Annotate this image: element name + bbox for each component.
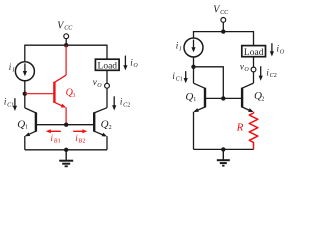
svg-text:O: O <box>97 83 102 89</box>
svg-text:1: 1 <box>58 139 61 145</box>
junction node B (right) <box>191 65 195 69</box>
label iC2 (left) <box>120 97 130 109</box>
svg-text:Load: Load <box>98 62 118 72</box>
vO terminal (right) <box>251 67 256 72</box>
junction base rail (right) <box>221 96 225 100</box>
junction base node (left) <box>64 123 68 127</box>
arrow iC2 (left) <box>113 96 115 106</box>
svg-text:1: 1 <box>180 77 183 83</box>
wire rail to load (right) <box>253 31 255 46</box>
svg-text:2: 2 <box>109 125 112 131</box>
transistor Q3 (red) <box>54 45 67 125</box>
label vO (right) <box>240 62 250 74</box>
arrow iO (right) <box>271 43 273 52</box>
wire vO to Q2 collector (left) <box>106 88 108 108</box>
transistor Q1 (right) <box>193 83 205 149</box>
wire VCC terminal to rail (left) <box>65 39 67 46</box>
svg-text:CC: CC <box>220 10 229 16</box>
label iC1 + arrow (right) <box>172 71 182 83</box>
wire base rail Q1 to Q2 (right) <box>205 97 242 99</box>
wire node B to Q1 collector (right) <box>193 67 195 83</box>
label Q1 (right) <box>185 91 196 103</box>
transistor Q1 (left) <box>24 108 36 150</box>
resistor R (red) <box>249 112 257 150</box>
svg-text:O: O <box>244 67 249 73</box>
svg-text:R: R <box>236 122 244 134</box>
label Q3 (red) <box>66 88 76 99</box>
wire diode connection node B to base rail (right) <box>194 67 224 99</box>
arrow iB2 (red) <box>73 129 87 133</box>
wire load to vO terminal (left) <box>106 70 108 83</box>
label iC1 + arrow (left) <box>4 97 14 109</box>
vO terminal (left) <box>105 83 110 88</box>
label Q2 (left) <box>101 119 112 131</box>
svg-text:Load: Load <box>244 48 264 58</box>
label iO (left) <box>130 57 138 69</box>
wire node A to Q3 base (red) <box>25 93 55 95</box>
svg-text:v: v <box>240 62 244 72</box>
load box (left) <box>95 59 119 70</box>
node VCC label (left) <box>57 20 73 31</box>
junction VCC rail (left) <box>64 43 68 47</box>
ground (left) <box>59 150 73 167</box>
svg-text:i: i <box>9 62 12 72</box>
wire bottom rail (left) <box>25 149 107 151</box>
wire rail to current source (left) <box>24 45 26 62</box>
svg-text:CC: CC <box>64 26 73 32</box>
label iC2 (right) <box>266 68 276 80</box>
wire VCC terminal to rail (right) <box>222 22 224 31</box>
svg-text:Q: Q <box>101 119 109 131</box>
label vO (left) <box>93 77 103 89</box>
junction ground node (right) <box>221 147 225 151</box>
svg-text:Q: Q <box>17 118 25 130</box>
svg-text:2: 2 <box>83 139 86 145</box>
transistor Q2 (right) <box>242 83 254 114</box>
label R (red) <box>236 122 244 134</box>
wire top rail (right) <box>194 31 254 33</box>
label iI (left) <box>9 62 16 74</box>
svg-text:1: 1 <box>25 125 28 131</box>
arrow iB1 (red) <box>46 129 61 133</box>
label Q2 (right) <box>254 90 264 102</box>
wire current source to node A (left) <box>24 81 26 94</box>
svg-text:1: 1 <box>193 97 196 103</box>
wire current source to node B (right) <box>193 57 195 67</box>
transistor Q2 (left) <box>94 108 108 150</box>
svg-text:3: 3 <box>72 93 75 99</box>
arrow iO (left) <box>124 56 126 67</box>
label iB2 (red) <box>75 133 85 145</box>
junction ground node (left) <box>64 148 68 152</box>
wire load to vO terminal (right) <box>253 57 255 67</box>
wire vO to Q2 collector (right) <box>253 72 255 83</box>
label iO (right) <box>277 44 285 56</box>
junction VCC rail (right) <box>221 29 225 33</box>
svg-text:2: 2 <box>127 102 130 108</box>
label iI (right) <box>176 41 183 53</box>
label iB1 (red) <box>51 133 61 145</box>
wire top rail (left) <box>25 44 107 46</box>
svg-text:v: v <box>93 77 97 87</box>
wire base rail Q1 to Q2 <box>36 124 94 126</box>
svg-text:2: 2 <box>274 73 277 79</box>
VCC terminal (right) <box>221 18 226 23</box>
svg-text:2: 2 <box>261 96 264 102</box>
junction node A (left) <box>23 92 27 96</box>
current source iI (left) <box>15 62 34 81</box>
wire rail to load (left) <box>106 45 108 60</box>
ground (right) <box>217 149 230 165</box>
wire bottom rail (right) <box>194 148 254 150</box>
current source iI (right) <box>184 38 203 57</box>
svg-text:Q: Q <box>185 91 193 103</box>
svg-text:I: I <box>178 47 182 53</box>
VCC terminal (left) <box>64 34 69 39</box>
wire rail to current source (right) <box>193 31 195 38</box>
wire node A to Q1 collector <box>24 94 26 108</box>
load box (right) <box>242 46 266 57</box>
arrow iC2 (right) <box>260 66 262 76</box>
label Q1 (left) <box>17 118 28 130</box>
svg-text:O: O <box>280 49 285 55</box>
svg-text:O: O <box>133 63 138 69</box>
node VCC label (right) <box>213 5 229 16</box>
